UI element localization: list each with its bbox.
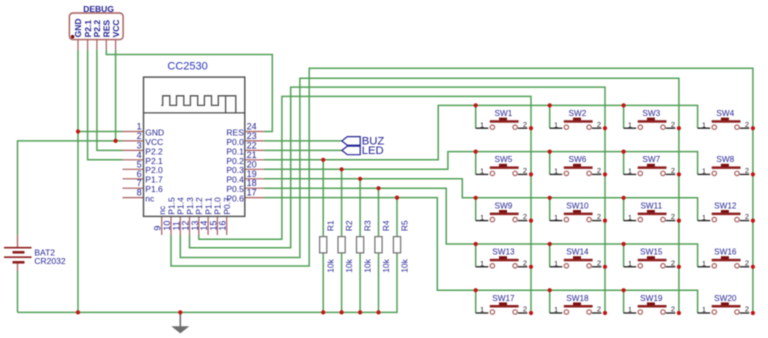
- svg-text:VCC: VCC: [111, 19, 121, 37]
- svg-text:SW18: SW18: [566, 294, 589, 303]
- svg-text:DEBUG: DEBUG: [83, 4, 114, 14]
- svg-text:SW20: SW20: [714, 294, 737, 303]
- svg-text:P2.2: P2.2: [145, 146, 163, 156]
- svg-text:2: 2: [671, 120, 675, 129]
- svg-text:2: 2: [597, 258, 601, 267]
- svg-text:SW17: SW17: [492, 294, 515, 303]
- svg-text:4: 4: [137, 150, 142, 160]
- svg-text:LED: LED: [362, 145, 384, 157]
- svg-text:1: 1: [702, 259, 706, 268]
- svg-text:SW3: SW3: [642, 109, 660, 118]
- svg-text:2: 2: [745, 166, 749, 175]
- svg-text:2: 2: [523, 258, 527, 267]
- svg-text:23: 23: [247, 131, 257, 141]
- svg-text:2: 2: [597, 212, 601, 221]
- svg-text:2: 2: [523, 305, 527, 314]
- svg-text:2: 2: [137, 131, 142, 141]
- svg-text:R1: R1: [326, 220, 336, 231]
- svg-text:R5: R5: [400, 220, 410, 231]
- svg-text:17: 17: [247, 188, 257, 198]
- svg-text:1: 1: [554, 213, 558, 222]
- svg-text:1: 1: [702, 305, 706, 314]
- svg-text:P0.3: P0.3: [226, 165, 244, 175]
- svg-text:2: 2: [597, 120, 601, 129]
- svg-text:SW7: SW7: [642, 155, 660, 164]
- svg-text:P2.0: P2.0: [145, 165, 163, 175]
- svg-text:1: 1: [480, 120, 484, 129]
- svg-text:SW8: SW8: [716, 155, 734, 164]
- svg-text:2: 2: [671, 212, 675, 221]
- svg-text:SW4: SW4: [716, 109, 734, 118]
- svg-text:SW1: SW1: [495, 109, 513, 118]
- svg-text:R4: R4: [381, 220, 391, 231]
- svg-text:CR2032: CR2032: [34, 256, 65, 266]
- svg-text:CC2530: CC2530: [167, 60, 207, 72]
- svg-text:16: 16: [218, 221, 228, 231]
- svg-text:SW11: SW11: [640, 201, 662, 210]
- svg-text:SW2: SW2: [569, 109, 587, 118]
- svg-text:2: 2: [745, 305, 749, 314]
- svg-text:1: 1: [554, 259, 558, 268]
- svg-text:1: 1: [480, 213, 484, 222]
- svg-text:5: 5: [137, 159, 142, 169]
- svg-text:1: 1: [702, 213, 706, 222]
- svg-text:2: 2: [523, 120, 527, 129]
- svg-text:10k: 10k: [400, 258, 410, 272]
- svg-text:2: 2: [523, 212, 527, 221]
- svg-text:1: 1: [554, 167, 558, 176]
- svg-text:1: 1: [480, 305, 484, 314]
- svg-text:1: 1: [702, 167, 706, 176]
- svg-text:SW6: SW6: [569, 155, 587, 164]
- svg-text:R3: R3: [363, 220, 373, 231]
- svg-text:1: 1: [628, 167, 632, 176]
- svg-text:SW5: SW5: [495, 155, 513, 164]
- svg-text:SW16: SW16: [714, 248, 737, 257]
- svg-text:GND: GND: [73, 19, 83, 38]
- svg-text:SW10: SW10: [566, 201, 589, 210]
- svg-text:2: 2: [745, 258, 749, 267]
- svg-text:1: 1: [628, 305, 632, 314]
- svg-text:2: 2: [671, 258, 675, 267]
- svg-text:nc: nc: [145, 194, 155, 204]
- svg-text:1: 1: [554, 120, 558, 129]
- svg-text:SW12: SW12: [714, 201, 737, 210]
- svg-text:2: 2: [597, 166, 601, 175]
- svg-text:1: 1: [554, 305, 558, 314]
- svg-text:2: 2: [745, 120, 749, 129]
- svg-text:1: 1: [480, 259, 484, 268]
- svg-text:2: 2: [745, 212, 749, 221]
- svg-text:SW14: SW14: [566, 248, 589, 257]
- svg-text:2: 2: [523, 166, 527, 175]
- svg-text:8: 8: [137, 188, 142, 198]
- svg-text:2: 2: [671, 305, 675, 314]
- svg-text:1: 1: [628, 259, 632, 268]
- svg-text:20: 20: [247, 159, 257, 169]
- svg-text:2: 2: [671, 166, 675, 175]
- svg-text:P0.1: P0.1: [226, 146, 244, 156]
- svg-text:21: 21: [247, 150, 257, 160]
- svg-text:R2: R2: [344, 220, 354, 231]
- svg-text:2: 2: [597, 305, 601, 314]
- svg-text:1: 1: [480, 167, 484, 176]
- svg-text:SW13: SW13: [492, 248, 515, 257]
- svg-text:1: 1: [628, 213, 632, 222]
- svg-text:1: 1: [702, 120, 706, 129]
- svg-text:SW19: SW19: [640, 294, 663, 303]
- svg-text:10k: 10k: [381, 258, 391, 272]
- svg-text:10k: 10k: [344, 258, 354, 272]
- svg-text:10k: 10k: [326, 258, 336, 272]
- svg-text:P0.7: P0.7: [222, 197, 232, 215]
- svg-text:1: 1: [628, 120, 632, 129]
- svg-text:P0.0: P0.0: [226, 137, 244, 147]
- svg-text:10k: 10k: [363, 258, 373, 272]
- svg-text:SW15: SW15: [640, 248, 663, 257]
- svg-text:VCC: VCC: [145, 137, 163, 147]
- svg-text:SW9: SW9: [495, 201, 513, 210]
